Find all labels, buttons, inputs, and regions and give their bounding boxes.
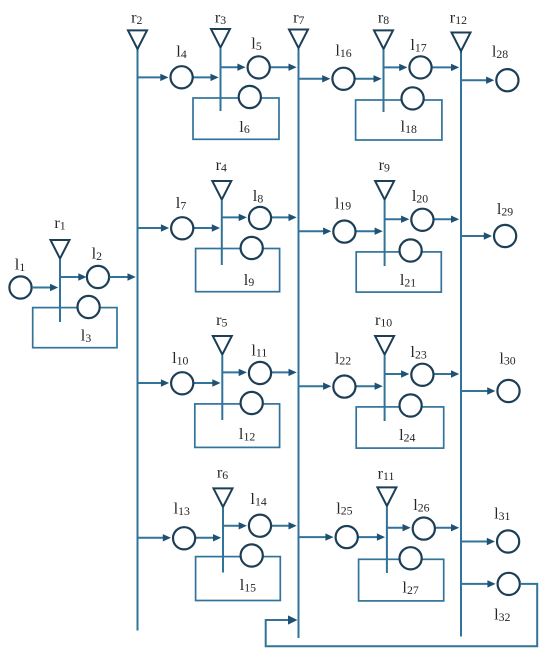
svg-text:l1: l1 [15,255,26,274]
svg-text:l16: l16 [335,41,351,60]
svg-text:l25: l25 [336,498,352,517]
svg-text:l27: l27 [402,578,418,597]
svg-text:r4: r4 [216,155,227,174]
svg-text:r10: r10 [375,310,392,329]
svg-text:l28: l28 [492,42,508,61]
svg-text:l26: l26 [413,495,429,514]
svg-text:l12: l12 [239,424,255,443]
svg-text:r5: r5 [216,310,227,329]
svg-text:r6: r6 [217,462,228,481]
svg-text:l15: l15 [240,575,256,594]
svg-text:l10: l10 [172,348,188,367]
svg-text:l31: l31 [494,504,510,523]
svg-text:l29: l29 [497,199,513,218]
svg-text:l13: l13 [174,499,190,518]
svg-text:r1: r1 [54,213,65,232]
svg-text:l8: l8 [253,186,264,205]
svg-text:r2: r2 [131,8,142,27]
svg-text:r9: r9 [379,155,390,174]
svg-text:l20: l20 [412,186,428,205]
svg-text:l19: l19 [335,193,351,212]
svg-text:l4: l4 [176,42,187,61]
svg-text:l14: l14 [250,489,266,508]
svg-text:l3: l3 [81,326,92,345]
svg-text:l17: l17 [410,35,426,54]
svg-text:l5: l5 [251,34,262,53]
svg-text:l30: l30 [499,348,515,367]
svg-text:l9: l9 [244,270,255,289]
svg-text:r3: r3 [215,8,226,27]
svg-text:r8: r8 [378,8,389,27]
svg-text:l18: l18 [401,117,417,136]
svg-text:l2: l2 [92,244,103,263]
svg-text:l23: l23 [410,342,426,361]
svg-text:r11: r11 [378,464,395,483]
svg-text:l24: l24 [399,425,415,444]
svg-text:l21: l21 [400,270,416,289]
svg-text:l6: l6 [239,117,250,136]
svg-text:r7: r7 [293,8,304,27]
svg-text:l7: l7 [176,193,187,212]
svg-text:l32: l32 [494,605,510,624]
svg-text:l11: l11 [251,340,267,359]
svg-text:r12: r12 [450,7,467,26]
svg-text:l22: l22 [335,348,351,367]
